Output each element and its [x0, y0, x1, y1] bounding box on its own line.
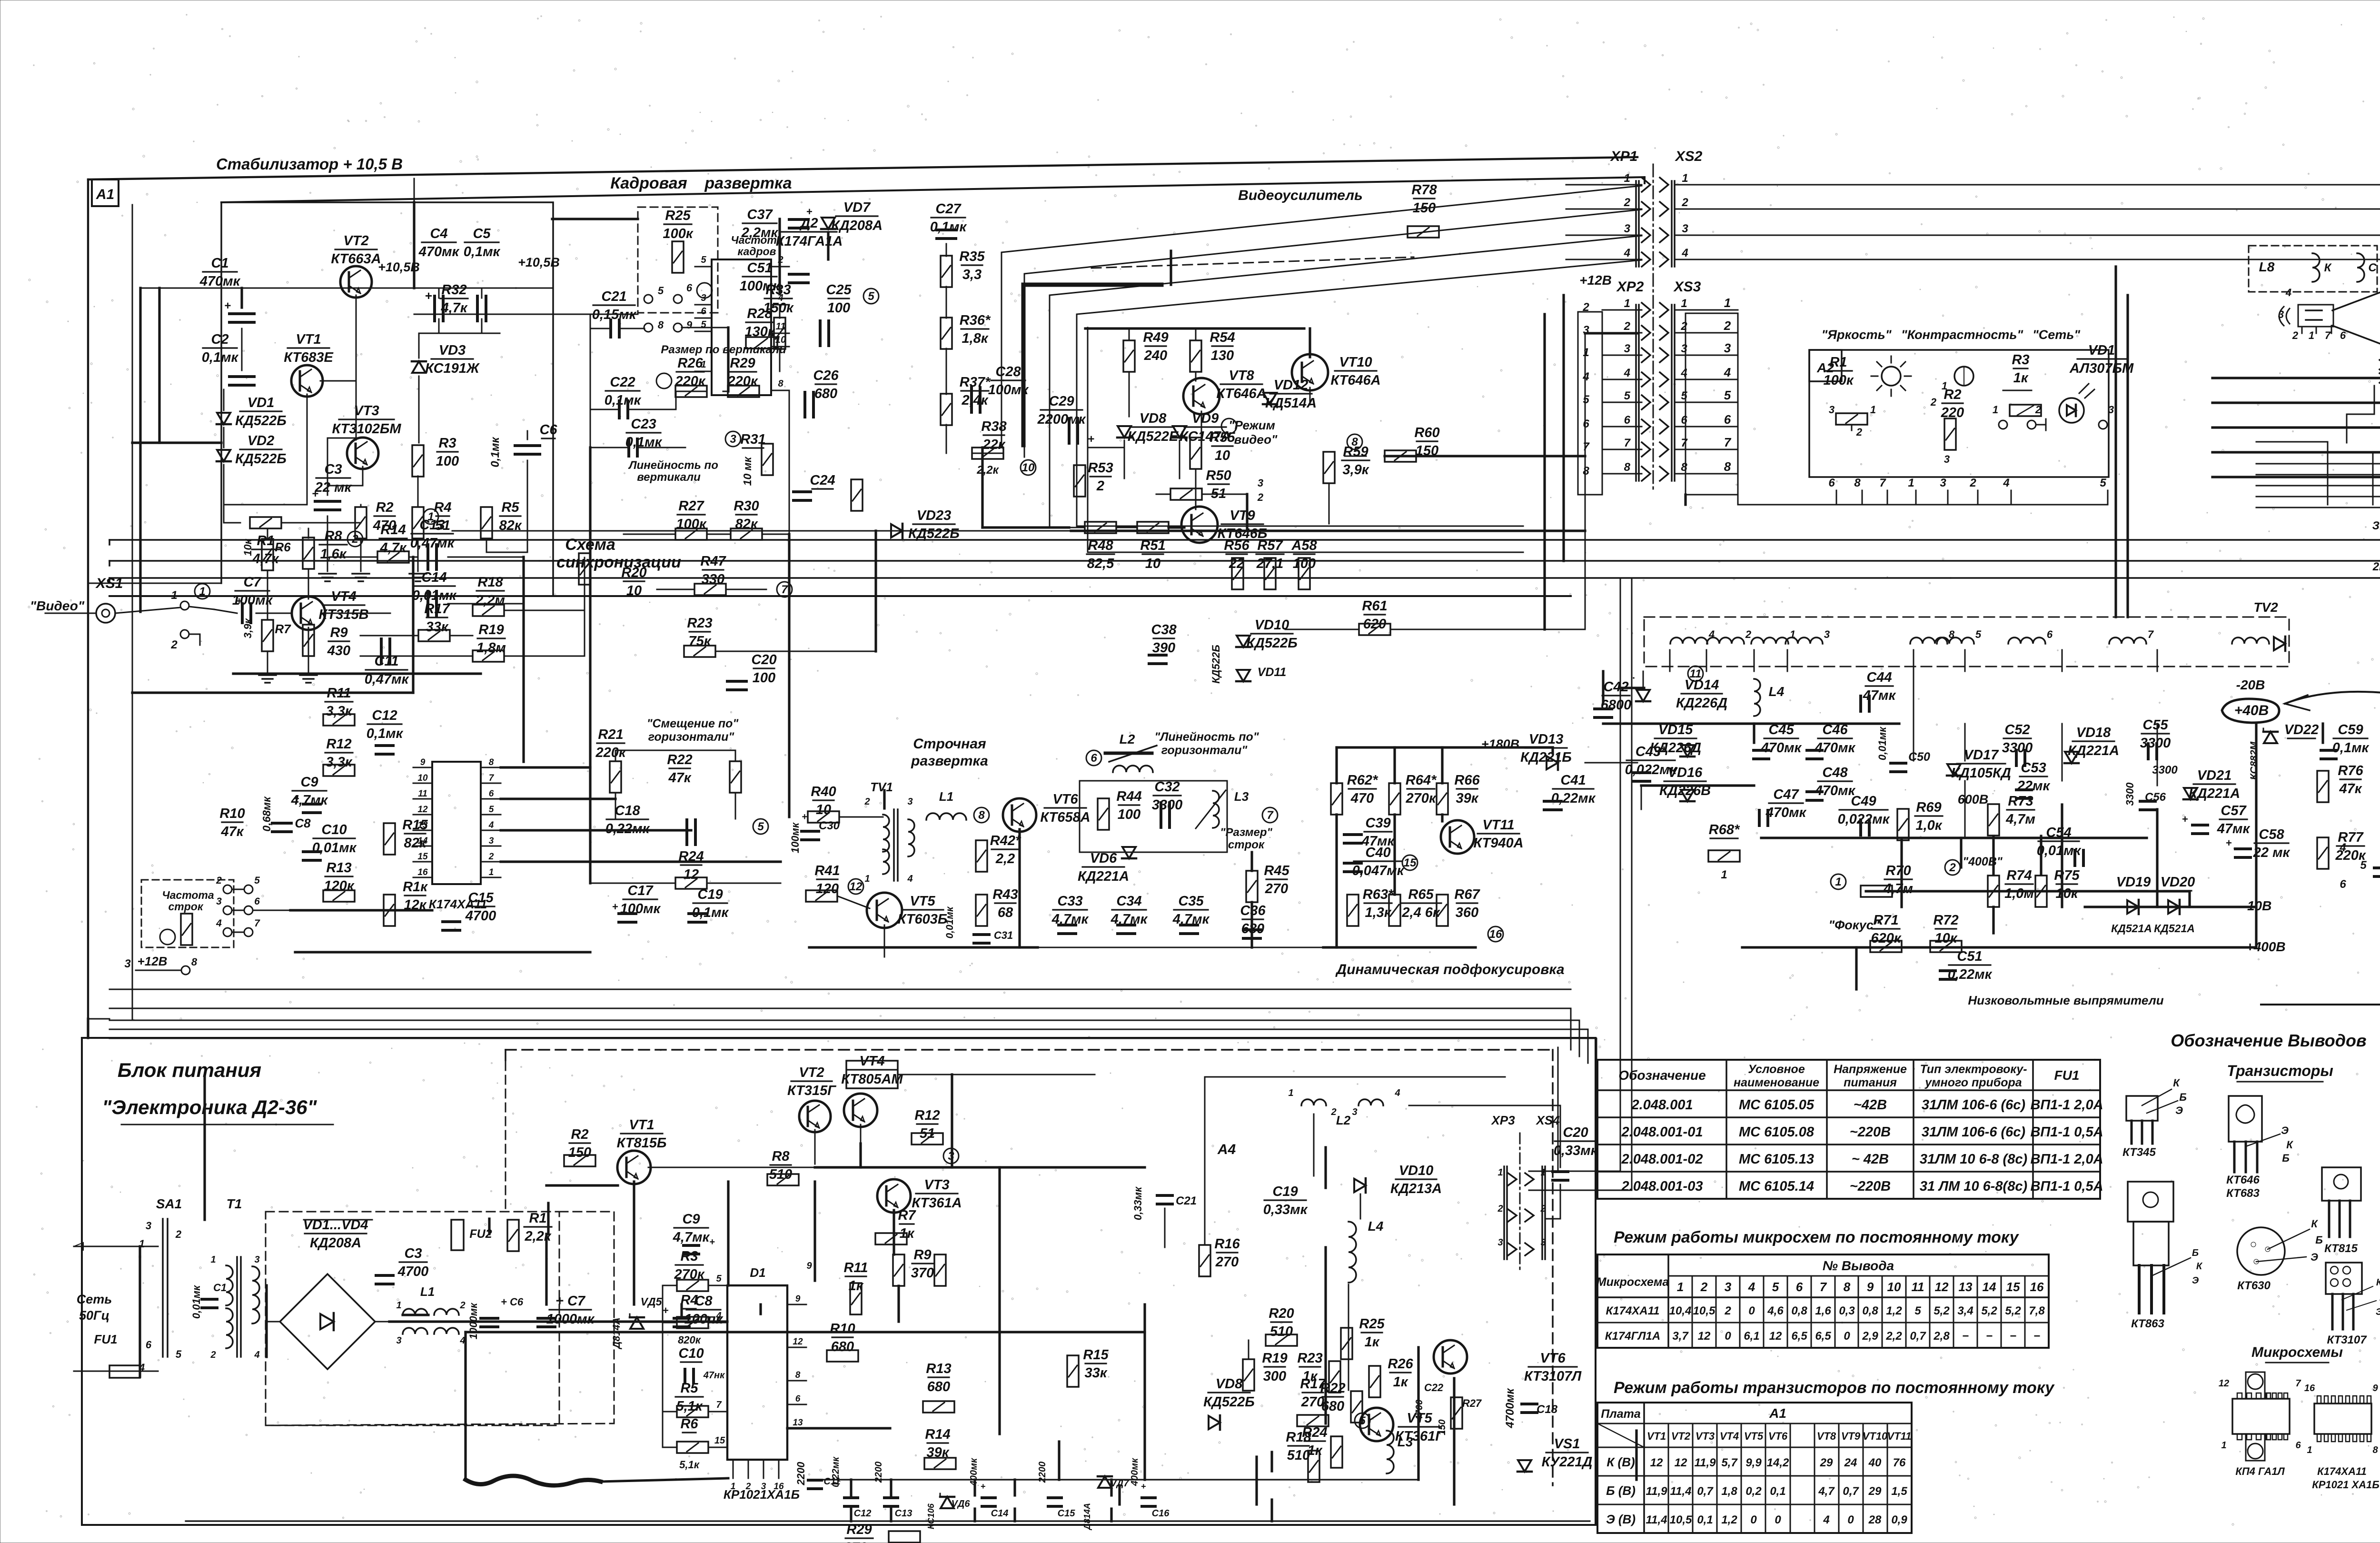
svg-text:1: 1 — [1993, 404, 1998, 416]
svg-text:С29: С29 — [1049, 394, 1074, 409]
svg-text:SА1: SА1 — [156, 1196, 182, 1211]
svg-text:1: 1 — [1583, 346, 1589, 359]
svg-text:0: 0 — [1750, 1513, 1757, 1526]
svg-text:R27: R27 — [678, 498, 704, 514]
svg-text:R9: R9 — [913, 1247, 931, 1263]
svg-text:2.048.001: 2.048.001 — [1631, 1097, 1693, 1113]
svg-text:ХS4: ХS4 — [1535, 1113, 1560, 1127]
svg-text:1: 1 — [2307, 1445, 2312, 1455]
svg-text:3: 3 — [1624, 342, 1631, 355]
svg-text:R2: R2 — [571, 1127, 588, 1142]
svg-text:"Контрастность": "Контрастность" — [1901, 328, 2024, 342]
svg-text:22 мк: 22 мк — [315, 480, 352, 495]
svg-text:наименование: наименование — [1734, 1076, 1819, 1089]
svg-text:К174ХА11: К174ХА11 — [429, 897, 487, 911]
svg-text:0,1мк: 0,1мк — [489, 437, 502, 468]
svg-text:1: 1 — [1497, 1167, 1503, 1178]
svg-text:умного прибора: умного прибора — [1924, 1076, 2022, 1089]
svg-text:"Электроника Д2-36": "Электроника Д2-36" — [102, 1096, 317, 1118]
svg-text:R1: R1 — [1829, 355, 1847, 370]
svg-text:"Размер": "Размер" — [1220, 826, 1272, 839]
svg-text:КТ683Е: КТ683Е — [284, 350, 334, 365]
svg-text:0,8: 0,8 — [1791, 1304, 1807, 1317]
svg-text:15: 15 — [417, 852, 428, 862]
svg-text:КД208А: КД208А — [310, 1235, 361, 1251]
svg-text:270к: 270к — [843, 1540, 874, 1543]
svg-text:3: 3 — [1352, 1107, 1357, 1117]
svg-text:КТ646: КТ646 — [2226, 1174, 2260, 1186]
svg-text:82,5: 82,5 — [1087, 556, 1114, 571]
svg-text:600В: 600В — [1958, 792, 1989, 806]
svg-text:6,5: 6,5 — [1791, 1330, 1807, 1343]
svg-text:0,022мк: 0,022мк — [1838, 812, 1890, 827]
svg-text:КД522Б: КД522Б — [235, 451, 287, 467]
svg-text:470мк: 470мк — [1815, 740, 1856, 756]
svg-text:ВП1-1 0,5А: ВП1-1 0,5А — [2030, 1179, 2103, 1194]
svg-text:0: 0 — [1847, 1513, 1854, 1526]
svg-text:7,8: 7,8 — [2029, 1304, 2045, 1317]
svg-text:R73: R73 — [2008, 794, 2033, 809]
svg-text:4: 4 — [1624, 367, 1630, 379]
svg-text:2,4к: 2,4к — [961, 393, 988, 408]
svg-text:3: 3 — [396, 1335, 401, 1346]
svg-text:150к: 150к — [763, 300, 793, 316]
svg-text:5: 5 — [658, 285, 664, 297]
svg-text:+: + — [2226, 837, 2232, 849]
svg-text:2.048.001-03: 2.048.001-03 — [1621, 1179, 1703, 1194]
svg-text:300: 300 — [1263, 1369, 1286, 1384]
svg-text:R29: R29 — [730, 356, 755, 371]
svg-text:С6: С6 — [539, 422, 557, 438]
svg-text:КТ940А: КТ940А — [1473, 836, 1523, 851]
svg-text:L1: L1 — [420, 1284, 435, 1299]
svg-text:К: К — [2173, 1077, 2180, 1089]
svg-text:Блок питания: Блок питания — [118, 1059, 261, 1081]
svg-text:С50: С50 — [1908, 750, 1930, 764]
svg-text:"Яркость": "Яркость" — [1821, 328, 1892, 342]
svg-text:R17: R17 — [1300, 1376, 1326, 1392]
svg-text:31ЛМ 106-6 (6с): 31ЛМ 106-6 (6с) — [1922, 1125, 2025, 1140]
svg-text:КТ663А: КТ663А — [331, 251, 381, 267]
svg-text:С1: С1 — [211, 256, 228, 271]
svg-text:С40: С40 — [1365, 845, 1390, 860]
svg-text:1: 1 — [1682, 172, 1688, 185]
svg-text:1: 1 — [171, 589, 177, 602]
svg-text:22 мк: 22 мк — [2253, 845, 2291, 860]
svg-text:L8: L8 — [2259, 259, 2275, 274]
svg-text:0,22мк: 0,22мк — [831, 1456, 841, 1487]
svg-text:2: 2 — [459, 1300, 465, 1311]
svg-text:5: 5 — [176, 1348, 182, 1360]
svg-text:Сеть: Сеть — [77, 1292, 112, 1306]
svg-text:31 ЛМ 10 6-8(8с): 31 ЛМ 10 6-8(8с) — [1920, 1179, 2027, 1194]
svg-text:Д2: Д2 — [799, 216, 818, 231]
svg-text:R74: R74 — [2006, 868, 2032, 883]
svg-text:R22: R22 — [667, 752, 692, 767]
svg-text:240: 240 — [1144, 348, 1167, 363]
svg-text:16: 16 — [417, 867, 428, 877]
svg-text:100к: 100к — [663, 226, 693, 241]
svg-text:3: 3 — [1681, 342, 1687, 355]
svg-text:А4: А4 — [1217, 1142, 1236, 1157]
svg-text:75к: 75к — [689, 634, 712, 649]
svg-text:С26: С26 — [813, 368, 839, 383]
svg-text:1: 1 — [489, 867, 494, 877]
svg-text:питания: питания — [1844, 1076, 1897, 1089]
svg-text:13: 13 — [417, 820, 428, 830]
svg-text:470: 470 — [1350, 791, 1374, 806]
svg-text:6: 6 — [1681, 414, 1687, 427]
svg-text:КТ805АМ: КТ805АМ — [841, 1072, 903, 1087]
svg-text:R32: R32 — [441, 282, 466, 298]
svg-text:R54: R54 — [1210, 330, 1235, 345]
svg-text:0,047мк: 0,047мк — [1352, 863, 1405, 878]
svg-text:2: 2 — [351, 533, 358, 546]
svg-text:3,4: 3,4 — [1957, 1304, 1973, 1317]
svg-text:КД521А: КД521А — [2111, 922, 2152, 935]
svg-text:2: 2 — [1624, 320, 1631, 333]
svg-text:Плата: Плата — [1601, 1407, 1641, 1421]
svg-text:1000мк: 1000мк — [546, 1312, 595, 1327]
svg-text:9: 9 — [1867, 1280, 1874, 1294]
svg-text:2,2: 2,2 — [1885, 1330, 1902, 1343]
svg-text:8: 8 — [1624, 461, 1631, 474]
svg-text:-20В: -20В — [2236, 677, 2265, 692]
svg-text:L4: L4 — [1368, 1219, 1384, 1234]
svg-text:Кадровая: Кадровая — [610, 174, 687, 192]
svg-text:0,47мк: 0,47мк — [410, 536, 455, 551]
svg-text:620к: 620к — [1871, 931, 1901, 946]
svg-text:6800: 6800 — [1601, 697, 1632, 713]
svg-text:С9: С9 — [682, 1212, 700, 1227]
svg-text:ХР3: ХР3 — [1490, 1113, 1515, 1127]
svg-text:3: 3 — [2108, 404, 2114, 416]
svg-text:VD10: VD10 — [1399, 1163, 1434, 1178]
svg-text:0,22мк: 0,22мк — [605, 821, 650, 836]
svg-text:4: 4 — [2003, 477, 2009, 489]
svg-text:13: 13 — [1959, 1280, 1973, 1294]
svg-text:строк: строк — [169, 900, 204, 913]
svg-text:6: 6 — [254, 896, 260, 907]
svg-text:Транзисторы: Транзисторы — [2227, 1062, 2333, 1079]
svg-text:синхронизации: синхронизации — [556, 553, 681, 571]
svg-text:КТ683: КТ683 — [2226, 1187, 2260, 1200]
svg-text:680: 680 — [831, 1339, 854, 1354]
svg-text:С37: С37 — [747, 207, 773, 222]
svg-text:КД105КД: КД105КД — [1951, 766, 2011, 781]
svg-text:R38: R38 — [981, 419, 1007, 434]
svg-text:+: + — [802, 812, 807, 822]
svg-text:R53: R53 — [1088, 460, 1113, 476]
svg-text:7: 7 — [1879, 477, 1886, 489]
svg-text:R50: R50 — [1206, 468, 1231, 483]
svg-text:С27: С27 — [935, 201, 962, 217]
svg-text:VT9: VT9 — [1230, 508, 1255, 523]
svg-text:L1: L1 — [939, 789, 953, 804]
svg-text:вертикали: вертикали — [637, 471, 701, 484]
svg-text:4: 4 — [1724, 365, 1731, 379]
svg-text:С15: С15 — [1058, 1508, 1076, 1519]
svg-text:R43: R43 — [992, 887, 1018, 902]
svg-text:С34: С34 — [1116, 894, 1141, 909]
svg-text:R51: R51 — [1140, 538, 1165, 553]
svg-text:С7: С7 — [243, 575, 262, 590]
svg-text:Э: Э — [2281, 1125, 2289, 1136]
svg-text:2200: 2200 — [795, 1462, 807, 1486]
svg-text:С23: С23 — [631, 417, 656, 432]
svg-text:Тип электровоку-: Тип электровоку- — [1920, 1063, 2027, 1076]
svg-text:1,2: 1,2 — [1721, 1513, 1737, 1526]
svg-text:R71: R71 — [1873, 913, 1898, 928]
svg-text:7: 7 — [254, 918, 260, 929]
svg-text:Условное: Условное — [1748, 1063, 1805, 1076]
svg-text:150: 150 — [1437, 1419, 1448, 1435]
svg-text:5,2: 5,2 — [1981, 1304, 1997, 1317]
svg-text:R6: R6 — [680, 1416, 698, 1432]
svg-text:+12В: +12В — [1579, 273, 1612, 288]
svg-text:КС106: КС106 — [926, 1503, 936, 1529]
svg-text:горизонтали": горизонтали" — [1161, 744, 1248, 757]
svg-text:1: 1 — [199, 585, 205, 598]
svg-text:С12: С12 — [372, 708, 397, 723]
svg-text:8: 8 — [1681, 461, 1687, 474]
svg-text:7: 7 — [1267, 809, 1274, 822]
svg-text:6: 6 — [146, 1339, 152, 1351]
svg-text:2: 2 — [1497, 1204, 1503, 1214]
svg-text:ХР2: ХР2 — [1616, 279, 1644, 295]
svg-text:3: 3 — [1725, 1280, 1732, 1294]
svg-text:5: 5 — [1681, 389, 1687, 402]
svg-text:С39: С39 — [1365, 816, 1390, 831]
svg-text:5,1к: 5,1к — [679, 1459, 700, 1471]
svg-text:Низковольтные выпрямители: Низковольтные выпрямители — [1968, 993, 2163, 1007]
svg-text:R14: R14 — [380, 522, 406, 538]
svg-text:1к: 1к — [2013, 370, 2029, 386]
svg-text:VT4: VT4 — [1720, 1430, 1739, 1442]
svg-text:А1: А1 — [1769, 1406, 1786, 1421]
svg-text:3: 3 — [701, 293, 706, 303]
svg-text:0,33мк: 0,33мк — [1132, 1186, 1144, 1220]
svg-text:R26: R26 — [677, 356, 703, 371]
svg-text:С2: С2 — [211, 332, 228, 347]
svg-text:370: 370 — [911, 1265, 934, 1281]
svg-text:330: 330 — [702, 572, 724, 587]
svg-text:С44: С44 — [1866, 670, 1892, 685]
svg-text:Динамическая подфокусировка: Динамическая подфокусировка — [1335, 962, 1564, 977]
svg-text:С21: С21 — [601, 289, 626, 304]
svg-text:5: 5 — [757, 820, 764, 833]
svg-text:5: 5 — [701, 319, 706, 330]
svg-text:270к: 270к — [1405, 791, 1436, 806]
svg-text:11,9: 11,9 — [1646, 1485, 1668, 1498]
svg-text:7: 7 — [2295, 1378, 2301, 1389]
svg-text:39к: 39к — [1456, 791, 1479, 806]
svg-text:С19: С19 — [697, 887, 723, 902]
svg-text:+: + — [663, 1304, 669, 1316]
svg-text:+: + — [236, 595, 242, 607]
svg-text:16: 16 — [2030, 1280, 2044, 1294]
svg-text:КС191Ж: КС191Ж — [425, 361, 480, 376]
svg-text:R15: R15 — [1083, 1347, 1109, 1363]
svg-text:R2: R2 — [376, 500, 393, 515]
svg-text:С51: С51 — [1957, 949, 1982, 964]
svg-text:горизонтали": горизонтали" — [648, 730, 735, 744]
svg-text:R12: R12 — [326, 737, 351, 752]
svg-text:0,33мк: 0,33мк — [1263, 1202, 1308, 1217]
svg-text:С10: С10 — [678, 1346, 704, 1361]
svg-text:2: 2 — [210, 1350, 216, 1360]
svg-text:Размер по вертикали: Размер по вертикали — [661, 343, 786, 356]
svg-text:R30: R30 — [734, 498, 759, 514]
svg-text:12: 12 — [1650, 1456, 1663, 1469]
svg-text:+ С7: + С7 — [555, 1294, 586, 1309]
svg-text:К: К — [2324, 261, 2332, 274]
svg-text:1,5: 1,5 — [1891, 1485, 1907, 1498]
svg-text:9: 9 — [2372, 1383, 2378, 1394]
svg-text:10: 10 — [1887, 1280, 1901, 1294]
svg-text:40: 40 — [1868, 1456, 1882, 1469]
svg-text:R27: R27 — [1462, 1397, 1482, 1409]
svg-text:6: 6 — [795, 1394, 801, 1404]
svg-text:КТ3102БМ: КТ3102БМ — [332, 421, 401, 437]
svg-text:220к: 220к — [595, 745, 626, 760]
svg-text:29: 29 — [1868, 1485, 1882, 1498]
svg-text:8: 8 — [2372, 1445, 2378, 1455]
svg-text:4,7м: 4,7м — [1883, 881, 1913, 896]
svg-text:МС 6105.13: МС 6105.13 — [1739, 1152, 1814, 1167]
svg-text:4,7мк: 4,7мк — [673, 1230, 710, 1245]
svg-text:−: − — [2010, 1330, 2016, 1343]
svg-text:ТV1: ТV1 — [870, 780, 893, 794]
svg-text:VT2: VT2 — [799, 1065, 824, 1080]
svg-text:+: + — [224, 299, 231, 312]
svg-text:R10: R10 — [830, 1321, 855, 1336]
svg-text:6,5: 6,5 — [1815, 1330, 1831, 1343]
svg-text:0,1мк: 0,1мк — [605, 393, 642, 408]
svg-text:1: 1 — [1677, 1280, 1684, 1294]
svg-text:9: 9 — [806, 1261, 812, 1271]
svg-text:12: 12 — [1769, 1330, 1782, 1343]
svg-text:VD12: VD12 — [1274, 378, 1309, 393]
svg-text:68: 68 — [998, 905, 1013, 920]
svg-text:28: 28 — [1868, 1513, 1882, 1526]
svg-text:VT8: VT8 — [1817, 1430, 1836, 1442]
svg-text:R5: R5 — [501, 500, 519, 515]
svg-text:0,1мк: 0,1мк — [464, 244, 501, 259]
svg-text:строк: строк — [1228, 838, 1265, 851]
svg-text:3,3: 3,3 — [962, 267, 982, 282]
svg-text:R69: R69 — [1916, 800, 1941, 815]
svg-text:КТ646А: КТ646А — [1216, 386, 1266, 401]
svg-text:0,1мк: 0,1мк — [930, 219, 967, 235]
svg-text:Э (В): Э (В) — [1606, 1512, 1636, 1526]
svg-text:7: 7 — [2325, 329, 2331, 341]
svg-text:+: + — [981, 1482, 986, 1491]
svg-text:470мк: 470мк — [1765, 805, 1807, 820]
svg-text:С53: С53 — [2021, 760, 2046, 776]
svg-text:4: 4 — [907, 874, 912, 884]
svg-text:4: 4 — [1624, 247, 1630, 259]
svg-text:R20: R20 — [621, 565, 646, 580]
svg-text:~220В: ~220В — [1850, 1125, 1891, 1140]
svg-text:9: 9 — [795, 1294, 801, 1304]
svg-text:5: 5 — [1359, 1414, 1366, 1427]
svg-text:R10: R10 — [219, 806, 245, 821]
svg-text:4: 4 — [2339, 841, 2346, 854]
svg-text:R61: R61 — [1362, 598, 1387, 614]
svg-text:0,7: 0,7 — [1697, 1485, 1714, 1498]
svg-text:130: 130 — [1211, 348, 1234, 363]
svg-text:6: 6 — [1796, 1280, 1803, 1294]
svg-text:КД514А: КД514А — [1265, 396, 1317, 411]
svg-text:ВП1-1 0,5А: ВП1-1 0,5А — [2030, 1125, 2103, 1140]
svg-text:VD14: VD14 — [1685, 677, 1719, 693]
svg-text:3,9к: 3,9к — [1342, 462, 1369, 478]
svg-text:Микросхема: Микросхема — [1597, 1275, 1669, 1289]
svg-text:С51: С51 — [747, 260, 772, 276]
svg-text:R49: R49 — [1143, 330, 1168, 345]
svg-text:Э: Э — [2192, 1275, 2199, 1286]
svg-text:КТ345: КТ345 — [2122, 1146, 2156, 1159]
svg-text:11: 11 — [418, 789, 427, 799]
svg-text:0,3: 0,3 — [1839, 1304, 1855, 1317]
svg-text:Стабилизатор + 10,5 В: Стабилизатор + 10,5 В — [216, 155, 403, 173]
svg-text:14: 14 — [1983, 1280, 1996, 1294]
svg-text:8: 8 — [658, 319, 664, 331]
svg-text:0,1мк: 0,1мк — [202, 350, 239, 365]
svg-text:2: 2 — [1969, 477, 1976, 489]
svg-text:8: 8 — [1854, 477, 1861, 489]
svg-text:10к: 10к — [2056, 886, 2079, 901]
svg-text:2П: 2П — [2372, 560, 2380, 573]
svg-text:R14: R14 — [925, 1427, 950, 1442]
svg-text:R1: R1 — [529, 1211, 546, 1226]
svg-text:МС 6105.08: МС 6105.08 — [1739, 1125, 1815, 1140]
svg-text:0: 0 — [1725, 1330, 1731, 1343]
svg-text:11,4: 11,4 — [1670, 1485, 1692, 1498]
svg-text:К: К — [2196, 1261, 2203, 1272]
svg-text:С13: С13 — [895, 1508, 912, 1519]
svg-text:VD10: VD10 — [1255, 617, 1289, 633]
svg-text:КТ315Г: КТ315Г — [787, 1083, 836, 1098]
svg-text:VT1: VT1 — [1647, 1430, 1666, 1442]
svg-text:12: 12 — [417, 805, 428, 815]
svg-text:5: 5 — [716, 1274, 722, 1284]
svg-text:ХS2: ХS2 — [1675, 149, 1703, 164]
svg-text:1,6: 1,6 — [1815, 1304, 1831, 1317]
svg-text:R67: R67 — [1454, 887, 1480, 902]
svg-text:VD8: VD8 — [1140, 411, 1167, 426]
svg-text:МС 6105.14: МС 6105.14 — [1739, 1179, 1814, 1194]
svg-text:2: 2 — [864, 796, 870, 807]
svg-text:Микросхемы: Микросхемы — [2251, 1344, 2343, 1360]
svg-text:3300: 3300 — [2124, 782, 2136, 806]
svg-text:33к: 33к — [1085, 1365, 1108, 1381]
svg-text:КД522Б: КД522Б — [1203, 1394, 1255, 1410]
svg-text:1: 1 — [1942, 380, 1947, 392]
svg-text:3: 3 — [761, 1482, 766, 1492]
svg-text:VS1: VS1 — [1554, 1436, 1580, 1452]
svg-text:3: 3 — [1624, 222, 1631, 235]
svg-text:Обозначение Выводов: Обозначение Выводов — [2171, 1031, 2366, 1050]
svg-text:КТ646А: КТ646А — [1330, 373, 1380, 388]
svg-text:1,3к: 1,3к — [1365, 905, 1391, 920]
svg-text:3: 3 — [1940, 477, 1946, 489]
svg-text:"Видео": "Видео" — [30, 598, 85, 613]
svg-text:7: 7 — [716, 1400, 722, 1410]
svg-text:0,68мк: 0,68мк — [260, 796, 273, 832]
svg-text:R25: R25 — [665, 208, 691, 223]
